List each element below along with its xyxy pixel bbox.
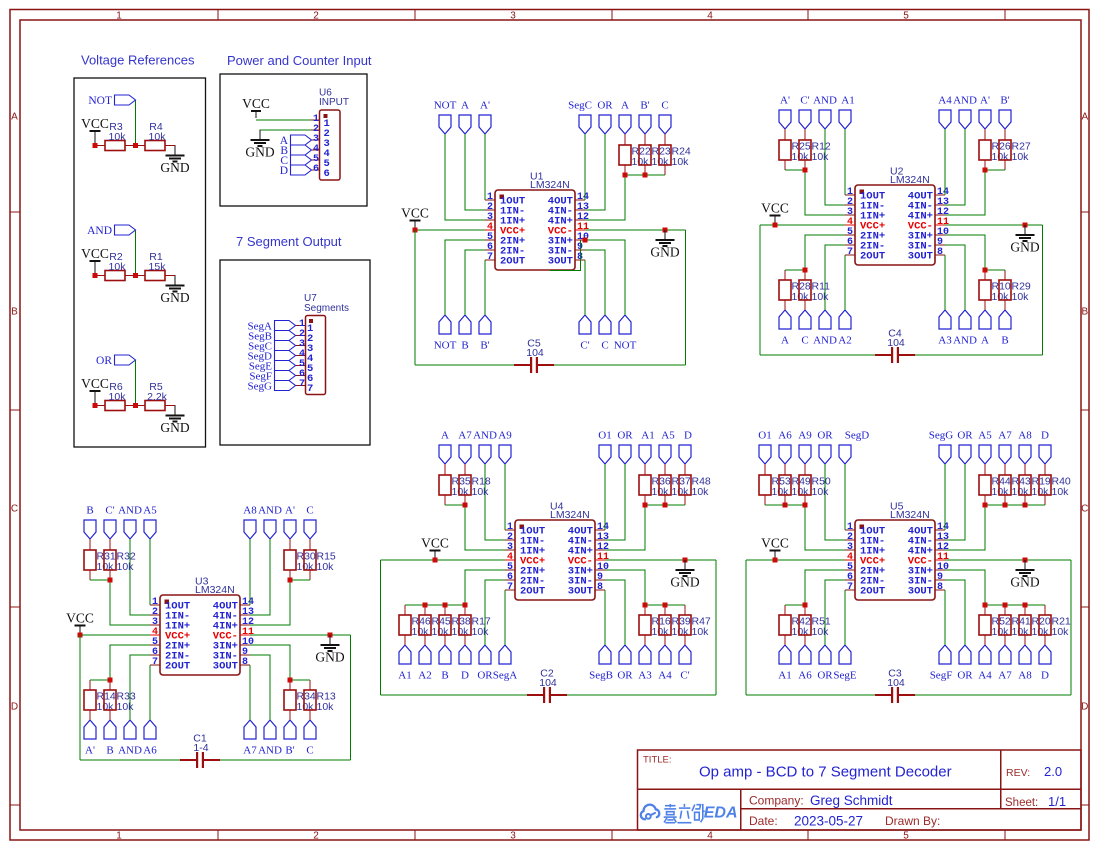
output flag SegF (275, 371, 296, 381)
ground (174, 146, 176, 156)
net flag A5 (144, 520, 156, 539)
svg-text:Greg Schmidt: Greg Schmidt (810, 793, 893, 808)
net flag C' (799, 110, 811, 129)
ground near U6 (259, 130, 261, 140)
wire AND to U2 pin 2 (825, 129, 845, 205)
wire resistor bus (290, 679, 310, 681)
wire C' to U1 pin 8 (584, 260, 586, 315)
net flag OR (819, 645, 831, 664)
svg-text:NOT: NOT (434, 340, 457, 352)
svg-text:A6: A6 (778, 430, 792, 442)
svg-text:VCC: VCC (761, 201, 789, 216)
wire bus to U5 pin 3 (805, 505, 845, 550)
wire VCC- rail (585, 229, 686, 231)
junction (108, 678, 113, 683)
junction (803, 603, 808, 608)
net flag A' (979, 110, 991, 129)
svg-text:10k: 10k (1012, 291, 1030, 303)
svg-text:EDA: EDA (704, 805, 738, 822)
svg-text:8: 8 (937, 582, 943, 593)
U6 pin 3 stub (311, 139, 320, 141)
svg-text:LM324N: LM324N (195, 584, 235, 596)
resistor R1 (145, 271, 165, 281)
svg-text:B: B (86, 505, 93, 517)
wire resistor bus (985, 169, 1005, 171)
resistor R39 (664, 605, 666, 615)
net flag OR (479, 645, 491, 664)
svg-text:2.2k: 2.2k (147, 391, 168, 403)
svg-text:AND: AND (87, 225, 112, 237)
net flag A5 (979, 445, 991, 464)
svg-text:104: 104 (887, 677, 905, 689)
svg-text:D: D (11, 702, 18, 713)
resistor R48 (684, 464, 686, 475)
logo text 嘉立创 (664, 804, 677, 823)
net flag AND (959, 110, 971, 129)
wire A2 to U2 pin 7 (844, 255, 846, 310)
svg-text:10k: 10k (117, 561, 135, 573)
svg-text:2: 2 (313, 11, 319, 22)
net flag A5 (659, 445, 671, 464)
svg-text:10k: 10k (1032, 626, 1050, 638)
net flag B' (639, 115, 651, 134)
output flag SegE (275, 361, 296, 371)
svg-text:A7: A7 (998, 430, 1012, 442)
svg-text:Sheet:: Sheet: (1005, 797, 1038, 809)
net flag AND (124, 520, 136, 539)
svg-text:8: 8 (577, 252, 583, 263)
net flag C' (579, 315, 591, 334)
net flag A8 (1019, 445, 1031, 464)
svg-text:2.0: 2.0 (1044, 764, 1062, 779)
power and counter input box (220, 74, 367, 206)
ground for U4 (684, 560, 686, 570)
svg-text:C: C (661, 100, 668, 112)
svg-text:SegD: SegD (845, 430, 870, 442)
net flag AND (479, 445, 491, 464)
wire SegE to U5 pin 7 (844, 590, 846, 645)
svg-text:2023-05-27: 2023-05-27 (794, 814, 863, 829)
wire AND to U3 pin 6 (130, 655, 150, 720)
wire stray at U1 pin 10 (550, 241, 581, 271)
wire right rail (1070, 560, 1072, 695)
junction (983, 268, 988, 273)
svg-text:OR: OR (597, 100, 613, 112)
wire bottom rail (381, 694, 528, 696)
wire resistor bus (985, 504, 1045, 506)
svg-text:10k: 10k (992, 626, 1010, 638)
wire left rail (79, 635, 81, 760)
junction (133, 143, 138, 148)
wire VCC- rail (250, 634, 351, 636)
svg-text:A': A' (285, 505, 295, 517)
svg-text:10k: 10k (97, 701, 115, 713)
EasyEDA logo (641, 805, 660, 820)
svg-text:10k: 10k (692, 626, 710, 638)
wire AND to U4 pin 2 (485, 464, 505, 540)
output flag SegG (275, 381, 296, 391)
resistor R25 (784, 129, 786, 140)
resistor R16 (644, 605, 646, 615)
wire VCC- rail (605, 559, 716, 561)
net flag OR (619, 645, 631, 664)
junction (663, 503, 668, 508)
U6 pin 4 stub (311, 149, 320, 151)
svg-text:10k: 10k (109, 391, 127, 403)
net flag A7 (999, 445, 1011, 464)
U6 pin 2 stub (311, 129, 320, 131)
wire NOT to U1 pin 5 (445, 240, 485, 315)
junction (623, 173, 628, 178)
svg-text:C: C (306, 505, 313, 517)
svg-text:INPUT: INPUT (319, 97, 349, 108)
wire left rail (380, 560, 382, 695)
wire A6 to U3 pin 7 (149, 665, 151, 720)
svg-text:B: B (1001, 335, 1008, 347)
svg-text:VCC: VCC (761, 536, 789, 551)
svg-text:OR: OR (96, 355, 112, 367)
junction (288, 578, 293, 583)
U6 pin 6 stub (311, 169, 320, 171)
svg-text:10k: 10k (692, 486, 710, 498)
svg-text:10k: 10k (672, 486, 690, 498)
junction (1003, 503, 1008, 508)
svg-text:10k: 10k (812, 151, 830, 163)
svg-text:NOT: NOT (88, 95, 112, 107)
net flag A6 (144, 720, 156, 739)
resistor R18 (464, 464, 466, 475)
svg-text:10k: 10k (772, 486, 790, 498)
svg-text:10k: 10k (792, 151, 810, 163)
svg-text:10k: 10k (452, 486, 470, 498)
net flag SegA (499, 645, 511, 664)
svg-text:A: A (1081, 112, 1088, 123)
net flag D (679, 445, 691, 464)
7 segment output box (220, 260, 370, 445)
net flag O1 (759, 445, 771, 464)
wire B to U1 pin 6 (465, 250, 485, 315)
voltage references box (74, 78, 206, 447)
svg-text:A7: A7 (458, 430, 472, 442)
resistor R5 (145, 401, 165, 411)
wire bus to U3 pin 10 (250, 645, 290, 680)
svg-text:NOT: NOT (434, 100, 457, 112)
junction (983, 603, 988, 608)
svg-text:GND: GND (160, 420, 189, 435)
net flag OR (619, 445, 631, 464)
junction (93, 403, 98, 408)
ground for U2 (1024, 225, 1026, 235)
svg-text:A5: A5 (978, 430, 992, 442)
svg-text:Segments: Segments (304, 303, 349, 314)
wire bus to U4 pin 5 (465, 570, 505, 605)
net flag A (979, 310, 991, 329)
op-amp U4 (515, 520, 595, 600)
net flag B' (479, 315, 491, 334)
svg-text:C: C (801, 335, 808, 347)
net flag A' (284, 520, 296, 539)
wire leads (95, 145, 105, 147)
svg-text:A1: A1 (398, 670, 411, 682)
net flag A2 (419, 645, 431, 664)
svg-text:10k: 10k (652, 626, 670, 638)
svg-text:SegB: SegB (589, 670, 613, 682)
U6 pin 1 stub (311, 119, 320, 121)
wire A8 to U3 pin 14 (249, 539, 251, 605)
svg-text:OR: OR (817, 670, 833, 682)
svg-text:10k: 10k (109, 261, 127, 273)
svg-text:O1: O1 (758, 430, 771, 442)
svg-text:4: 4 (707, 831, 713, 842)
svg-text:10k: 10k (472, 486, 490, 498)
svg-text:A': A' (480, 100, 490, 112)
svg-text:104: 104 (526, 347, 544, 359)
net flag SegE (839, 645, 851, 664)
net flag A6 (779, 445, 791, 464)
svg-text:LM324N: LM324N (550, 509, 590, 521)
svg-text:10k: 10k (297, 701, 315, 713)
wire OR to U5 pin 9 (945, 580, 965, 645)
wire NOT to divider (135, 101, 137, 144)
resistor R28 (784, 270, 786, 280)
net flag A' (479, 115, 491, 134)
junction (643, 173, 648, 178)
svg-text:10k: 10k (1052, 626, 1070, 638)
svg-text:Company:: Company: (749, 794, 804, 808)
svg-text:2OUT: 2OUT (500, 256, 525, 268)
junction (108, 578, 113, 583)
net flag D (1039, 445, 1051, 464)
output flag SegC (275, 341, 296, 351)
junction (1023, 503, 1028, 508)
wire NOT to U1 pin 3 (445, 134, 485, 220)
net flag B' (284, 720, 296, 739)
net flag C (304, 520, 316, 539)
svg-text:AND: AND (813, 95, 837, 107)
svg-text:AND: AND (118, 505, 142, 517)
resistor R42 (784, 605, 786, 615)
net flag B (999, 310, 1011, 329)
svg-text:D: D (461, 670, 469, 682)
svg-text:10k: 10k (652, 486, 670, 498)
resistor R51 (804, 605, 806, 615)
svg-text:C: C (601, 340, 608, 352)
junction (443, 603, 448, 608)
svg-text:SegF: SegF (930, 670, 953, 682)
svg-text:OR: OR (477, 670, 493, 682)
svg-text:OR: OR (817, 430, 833, 442)
svg-text:10k: 10k (1032, 486, 1050, 498)
svg-text:10k: 10k (412, 626, 430, 638)
junction (983, 503, 988, 508)
svg-text:A1: A1 (641, 430, 654, 442)
wire bus to U4 pin 10 (605, 570, 645, 605)
junction (803, 268, 808, 273)
wire leads (95, 405, 105, 407)
svg-text:AND: AND (813, 335, 837, 347)
svg-text:7: 7 (507, 582, 513, 593)
svg-text:10k: 10k (1012, 626, 1030, 638)
resistor R37 (664, 464, 666, 475)
svg-text:GND: GND (160, 160, 189, 175)
net flag D (459, 645, 471, 664)
wire AND to U2 pin 9 (945, 245, 965, 310)
svg-text:104: 104 (887, 337, 905, 349)
svg-text:A5: A5 (661, 430, 675, 442)
svg-text:104: 104 (539, 677, 557, 689)
wire VCC+ rail (415, 229, 485, 231)
net flag SegG (939, 445, 951, 464)
wire A7 to U3 pin 8 (249, 665, 251, 720)
ground for U5 (1024, 560, 1026, 570)
wire bus to U4 pin 12 (605, 505, 645, 550)
svg-text:A1: A1 (841, 95, 854, 107)
svg-text:GND: GND (315, 650, 344, 665)
wire resistor bus (985, 269, 1005, 271)
resistor R50 (804, 464, 806, 475)
input flag B (291, 145, 312, 155)
junction (803, 168, 808, 173)
svg-text:B': B' (640, 100, 649, 112)
capacitor C4 (875, 354, 892, 356)
net flag A' (84, 720, 96, 739)
svg-text:7 Segment Output: 7 Segment Output (236, 234, 342, 249)
svg-text:SegE: SegE (833, 670, 857, 682)
svg-text:A2: A2 (838, 335, 851, 347)
svg-text:GND: GND (670, 575, 699, 590)
junction (288, 678, 293, 683)
svg-text:SegG: SegG (929, 430, 954, 442)
svg-text:VCC: VCC (421, 536, 449, 551)
svg-text:10k: 10k (812, 486, 830, 498)
resistor R15 (309, 539, 311, 550)
svg-text:3: 3 (510, 831, 516, 842)
wire left rail (745, 560, 747, 695)
svg-text:A: A (461, 100, 469, 112)
resistor R47 (684, 605, 686, 615)
svg-text:10k: 10k (432, 626, 450, 638)
wire OR to U4 pin 13 (605, 464, 625, 540)
wire OR to U4 pin 9 (605, 580, 625, 645)
svg-text:5: 5 (903, 11, 909, 22)
net flag A6 (799, 645, 811, 664)
net flag A7 (459, 445, 471, 464)
svg-text:C': C' (680, 670, 689, 682)
svg-text:AND: AND (473, 430, 497, 442)
svg-text:2OUT: 2OUT (165, 661, 190, 673)
net flag NOT (115, 95, 136, 105)
svg-text:B: B (461, 340, 468, 352)
svg-text:10k: 10k (117, 701, 135, 713)
svg-text:6: 6 (324, 168, 330, 180)
svg-text:A8: A8 (1018, 430, 1032, 442)
svg-text:A6: A6 (143, 745, 157, 757)
resistor R11 (804, 270, 806, 280)
net flag OR (819, 445, 831, 464)
resistor R53 (764, 464, 766, 475)
output flag SegA (275, 321, 296, 331)
wire bus to U5 pin 12 (945, 505, 985, 550)
svg-text:10k: 10k (992, 151, 1010, 163)
svg-text:10k: 10k (812, 626, 830, 638)
connector U7 Segments (306, 316, 326, 395)
svg-text:VCC: VCC (401, 206, 429, 221)
net flag A2 (839, 310, 851, 329)
wire AND to U2 pin 13 (945, 129, 965, 205)
net flag B' (999, 110, 1011, 129)
U7 pin 4 stub (296, 355, 306, 357)
net flag OR (115, 355, 136, 365)
net flag O1 (599, 445, 611, 464)
op-amp U2 (855, 185, 935, 265)
svg-text:7: 7 (299, 379, 305, 390)
svg-text:A2: A2 (418, 670, 431, 682)
wire B' to U1 pin 7 (484, 260, 486, 315)
resistor R32 (109, 539, 111, 550)
wire resistor bus (90, 679, 110, 681)
wire resistor bus (405, 604, 465, 606)
input flag C (291, 155, 312, 165)
capacitor C3 (875, 694, 892, 696)
wire resistor bus (290, 579, 310, 581)
net flag B (84, 520, 96, 539)
wire resistor bus (645, 604, 685, 606)
resistor R27 (1004, 129, 1006, 140)
net flag NOT (439, 115, 451, 134)
svg-text:B: B (11, 307, 18, 318)
junction (463, 503, 468, 508)
wire bus to U2 pin 3 (805, 170, 845, 215)
wire bus to U5 pin 10 (945, 570, 985, 605)
net flag A4 (979, 645, 991, 664)
wire right rail (685, 230, 687, 365)
resistor R40 (1044, 464, 1046, 475)
svg-text:1-4: 1-4 (193, 742, 208, 754)
svg-text:2OUT: 2OUT (520, 586, 545, 598)
input flag D (291, 165, 312, 175)
svg-text:10k: 10k (1052, 486, 1070, 498)
connector U6 INPUT (320, 110, 341, 180)
svg-text:A: A (981, 335, 989, 347)
svg-text:B': B' (1000, 95, 1009, 107)
net flag C (304, 720, 316, 739)
svg-text:A9: A9 (798, 430, 812, 442)
svg-text:7: 7 (847, 247, 853, 258)
junction (643, 603, 648, 608)
wire A1 to U2 pin 1 (844, 129, 846, 195)
ground for U3 (329, 635, 331, 645)
ground (174, 276, 176, 286)
wire resistor bus (785, 169, 805, 171)
junction (983, 168, 988, 173)
wire OR to U5 pin 6 (825, 580, 845, 645)
wire bottom rail (415, 364, 514, 366)
net flag A1 (639, 445, 651, 464)
svg-text:10k: 10k (792, 486, 810, 498)
net flag NOT (439, 315, 451, 334)
svg-text:A8: A8 (1018, 670, 1032, 682)
svg-text:D: D (280, 165, 288, 177)
svg-text:A4: A4 (938, 95, 952, 107)
wire bottom rail (760, 354, 875, 356)
svg-text:A7: A7 (243, 745, 257, 757)
svg-text:VCC: VCC (81, 376, 109, 391)
wire A4 to U2 pin 14 (944, 129, 946, 195)
svg-text:VCC: VCC (81, 116, 109, 131)
wire AND to U3 pin 9 (250, 655, 270, 720)
U6 pin 5 stub (311, 159, 320, 161)
svg-text:AND: AND (953, 335, 977, 347)
